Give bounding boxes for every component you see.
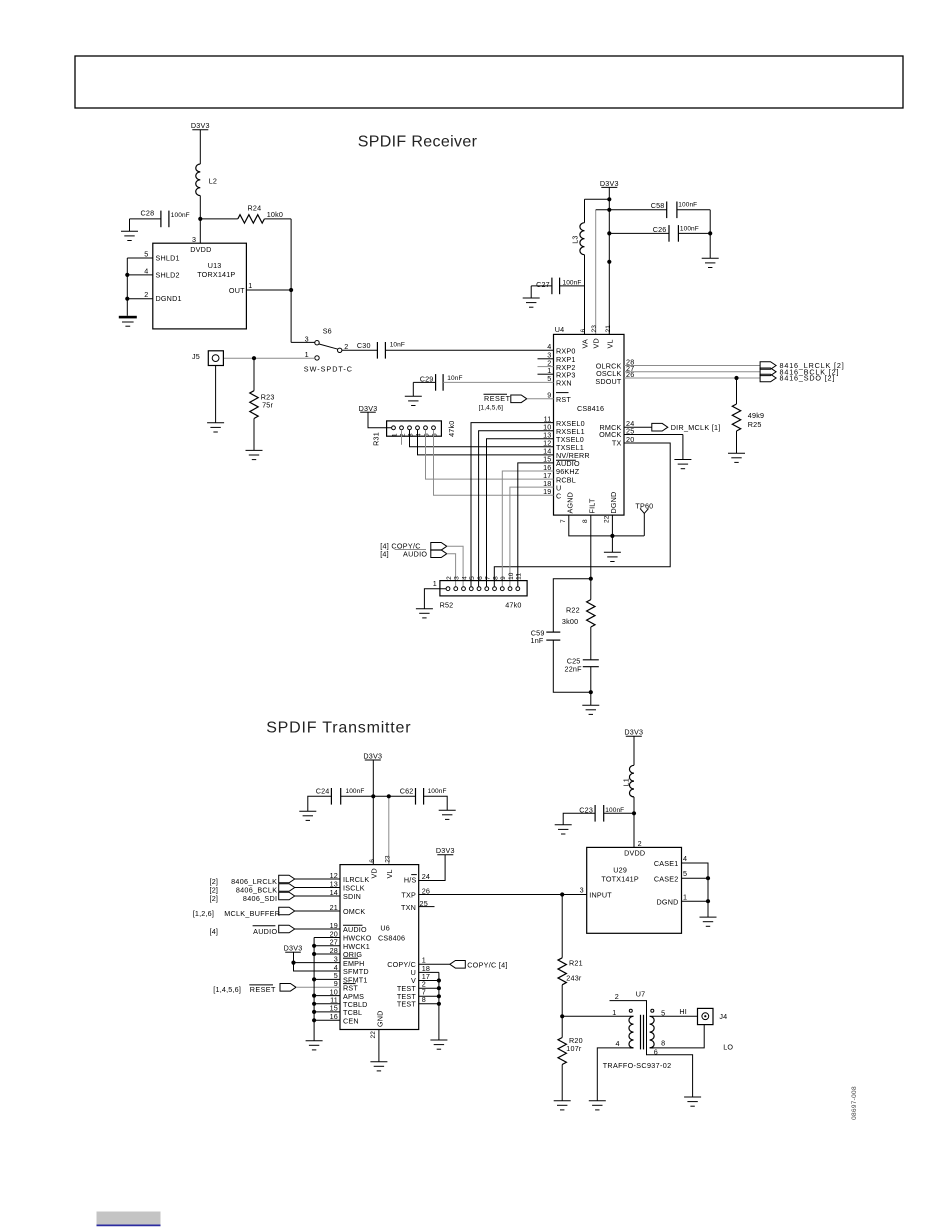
- svg-text:TOTX141P: TOTX141P: [601, 874, 638, 883]
- svg-text:23: 23: [384, 855, 391, 863]
- svg-text:16: 16: [330, 1012, 338, 1021]
- svg-text:TX: TX: [612, 439, 622, 448]
- svg-text:47k0: 47k0: [447, 421, 456, 437]
- svg-text:4: 4: [415, 433, 422, 437]
- svg-text:L1: L1: [622, 778, 631, 786]
- svg-text:10k0: 10k0: [267, 210, 283, 219]
- svg-text:VA: VA: [581, 339, 590, 348]
- svg-text:COPY/C [4]: COPY/C [4]: [467, 960, 508, 969]
- svg-text:[1,2,6]: [1,2,6]: [193, 909, 214, 918]
- svg-text:L2: L2: [209, 177, 217, 186]
- svg-text:2: 2: [446, 576, 453, 580]
- svg-text:5: 5: [144, 250, 148, 259]
- svg-text:11: 11: [516, 573, 523, 580]
- svg-text:R24: R24: [248, 204, 262, 213]
- svg-text:SHLD1: SHLD1: [156, 254, 180, 263]
- svg-text:100nF: 100nF: [678, 202, 697, 209]
- svg-text:SW-SPDT-C: SW-SPDT-C: [304, 365, 353, 374]
- svg-text:OUT: OUT: [229, 286, 245, 295]
- svg-text:VL: VL: [605, 339, 614, 348]
- svg-text:VL: VL: [385, 869, 394, 878]
- svg-text:DGND: DGND: [657, 897, 679, 906]
- svg-text:8: 8: [422, 995, 426, 1004]
- svg-text:1: 1: [433, 579, 437, 588]
- svg-text:CASE2: CASE2: [654, 874, 679, 883]
- svg-text:SHLD2: SHLD2: [156, 270, 180, 279]
- svg-text:RESET: RESET: [484, 394, 511, 403]
- svg-text:SPDIF Transmitter: SPDIF Transmitter: [266, 720, 411, 737]
- svg-text:1: 1: [612, 1008, 616, 1017]
- svg-text:10nF: 10nF: [390, 342, 405, 349]
- svg-text:22nF: 22nF: [565, 665, 583, 674]
- svg-text:243r: 243r: [566, 974, 582, 983]
- svg-text:7: 7: [485, 576, 492, 580]
- svg-text:4: 4: [144, 266, 148, 275]
- svg-text:FILT: FILT: [588, 498, 597, 513]
- svg-text:SDOUT: SDOUT: [595, 377, 622, 386]
- svg-text:4: 4: [461, 576, 468, 580]
- svg-text:R21: R21: [569, 959, 583, 968]
- svg-text:C30: C30: [357, 341, 371, 350]
- svg-text:DVDD: DVDD: [190, 245, 211, 254]
- svg-text:DGND: DGND: [609, 492, 618, 514]
- svg-text:TORX141P: TORX141P: [197, 270, 235, 279]
- svg-text:8: 8: [492, 576, 499, 580]
- svg-text:1nF: 1nF: [531, 636, 544, 645]
- svg-text:U13: U13: [208, 261, 222, 270]
- svg-text:VD: VD: [369, 868, 378, 878]
- svg-text:08697-008: 08697-008: [851, 1086, 858, 1120]
- svg-text:8416_SDO [2]: 8416_SDO [2]: [780, 374, 836, 383]
- svg-text:7: 7: [560, 519, 567, 523]
- svg-text:C58: C58: [651, 201, 665, 210]
- svg-text:4: 4: [615, 1039, 619, 1048]
- svg-text:INPUT: INPUT: [589, 891, 612, 900]
- svg-text:U7: U7: [636, 989, 646, 998]
- svg-text:1: 1: [305, 350, 309, 359]
- svg-text:U29: U29: [613, 866, 627, 875]
- svg-text:3k00: 3k00: [562, 617, 578, 626]
- svg-text:J4: J4: [719, 1012, 727, 1021]
- svg-text:D3V3: D3V3: [363, 751, 382, 760]
- svg-text:C: C: [556, 491, 561, 500]
- svg-text:2: 2: [638, 839, 642, 848]
- svg-text:C62: C62: [400, 787, 414, 796]
- svg-text:CS8406: CS8406: [378, 933, 405, 942]
- svg-text:24: 24: [422, 872, 430, 881]
- svg-text:10: 10: [508, 572, 515, 580]
- svg-text:100nF: 100nF: [680, 226, 699, 233]
- svg-text:D3V3: D3V3: [284, 944, 303, 953]
- svg-text:TRAFFO-SC937-02: TRAFFO-SC937-02: [603, 1061, 672, 1070]
- svg-text:[2]: [2]: [210, 894, 219, 903]
- svg-text:5: 5: [423, 433, 430, 437]
- svg-text:S6: S6: [323, 327, 332, 336]
- svg-text:AUDIO: AUDIO: [253, 927, 277, 936]
- svg-text:D3V3: D3V3: [600, 179, 619, 188]
- svg-text:9: 9: [500, 576, 507, 580]
- svg-text:6: 6: [369, 859, 376, 863]
- svg-text:[4]: [4]: [380, 550, 389, 559]
- svg-text:SDIN: SDIN: [343, 892, 361, 901]
- svg-text:5: 5: [547, 374, 551, 383]
- svg-text:RST: RST: [556, 395, 571, 404]
- svg-text:6: 6: [431, 433, 438, 437]
- svg-text:OMCK: OMCK: [343, 907, 365, 916]
- svg-text:[1,4,5,6]: [1,4,5,6]: [213, 985, 241, 994]
- svg-text:AGND: AGND: [566, 492, 575, 514]
- svg-text:75r: 75r: [262, 400, 273, 409]
- svg-text:4: 4: [683, 854, 687, 863]
- svg-text:100nF: 100nF: [171, 212, 190, 219]
- svg-text:3: 3: [580, 886, 584, 895]
- svg-text:DVDD: DVDD: [624, 849, 645, 858]
- svg-text:6: 6: [580, 329, 587, 333]
- svg-text:6: 6: [477, 576, 484, 580]
- svg-text:CASE1: CASE1: [654, 859, 679, 868]
- svg-text:8406_SDI: 8406_SDI: [243, 894, 277, 903]
- svg-text:47k0: 47k0: [505, 600, 521, 609]
- svg-text:LO: LO: [723, 1043, 733, 1052]
- svg-text:CEN: CEN: [343, 1017, 359, 1026]
- svg-text:22: 22: [370, 1031, 377, 1039]
- svg-text:R25: R25: [748, 420, 762, 429]
- svg-text:RESET: RESET: [250, 985, 276, 994]
- svg-text:2: 2: [144, 290, 148, 299]
- svg-text:23: 23: [591, 325, 598, 333]
- svg-text:3: 3: [305, 334, 309, 343]
- svg-text:HI: HI: [679, 1007, 687, 1016]
- svg-text:AUDIO: AUDIO: [403, 550, 427, 559]
- svg-text:[4]: [4]: [210, 927, 219, 936]
- svg-text:TEST: TEST: [397, 1000, 417, 1009]
- svg-text:5: 5: [661, 1009, 665, 1018]
- svg-text:VD: VD: [592, 338, 601, 348]
- svg-text:SPDIF Receiver: SPDIF Receiver: [358, 134, 478, 151]
- svg-text:5: 5: [469, 576, 476, 580]
- svg-text:CS8416: CS8416: [577, 404, 604, 413]
- svg-text:D3V3: D3V3: [359, 404, 378, 413]
- svg-text:C28: C28: [141, 208, 155, 217]
- svg-text:19: 19: [543, 487, 551, 496]
- svg-text:1: 1: [683, 893, 687, 902]
- svg-text:21: 21: [330, 903, 338, 912]
- svg-text:1: 1: [391, 433, 398, 437]
- svg-text:2: 2: [399, 433, 406, 437]
- svg-text:22: 22: [604, 515, 611, 523]
- svg-text:J5: J5: [192, 352, 200, 361]
- svg-text:R52: R52: [440, 600, 454, 609]
- svg-text:DGND1: DGND1: [156, 294, 182, 303]
- svg-text:9: 9: [547, 391, 551, 400]
- svg-text:21: 21: [605, 325, 612, 333]
- svg-text:8: 8: [582, 519, 589, 523]
- svg-text:8: 8: [661, 1038, 665, 1047]
- svg-text:DIR_MCLK [1]: DIR_MCLK [1]: [671, 423, 721, 432]
- svg-text:C24: C24: [316, 787, 330, 796]
- svg-text:R22: R22: [566, 605, 580, 614]
- svg-text:D3V3: D3V3: [191, 121, 210, 130]
- svg-text:TXN: TXN: [401, 903, 416, 912]
- svg-text:GND: GND: [376, 1010, 385, 1027]
- svg-text:L3: L3: [571, 235, 580, 243]
- svg-text:R31: R31: [372, 432, 381, 446]
- svg-text:RXN: RXN: [556, 379, 572, 388]
- svg-text:[1,4,5,6]: [1,4,5,6]: [479, 404, 503, 411]
- svg-text:3: 3: [454, 576, 461, 580]
- svg-text:1: 1: [248, 281, 252, 290]
- svg-text:14: 14: [330, 888, 338, 897]
- svg-text:MCLK_BUFFER: MCLK_BUFFER: [224, 909, 280, 918]
- svg-text:10nF: 10nF: [447, 375, 462, 382]
- svg-text:D3V3: D3V3: [624, 728, 643, 737]
- svg-text:5: 5: [683, 869, 687, 878]
- svg-text:C27: C27: [536, 280, 550, 289]
- svg-text:3: 3: [192, 235, 196, 244]
- svg-text:107r: 107r: [566, 1044, 582, 1053]
- svg-text:U6: U6: [380, 924, 390, 933]
- svg-text:TXP: TXP: [401, 891, 416, 900]
- svg-text:2: 2: [615, 992, 619, 1001]
- svg-text:U4: U4: [555, 325, 565, 334]
- svg-text:D3V3: D3V3: [436, 846, 455, 855]
- svg-text:100nF: 100nF: [346, 788, 365, 795]
- svg-text:H/S: H/S: [404, 876, 417, 885]
- svg-text:3: 3: [407, 433, 414, 437]
- svg-text:100nF: 100nF: [428, 788, 447, 795]
- svg-text:C26: C26: [653, 225, 667, 234]
- svg-text:TP60: TP60: [635, 501, 653, 510]
- svg-text:6: 6: [654, 1048, 658, 1057]
